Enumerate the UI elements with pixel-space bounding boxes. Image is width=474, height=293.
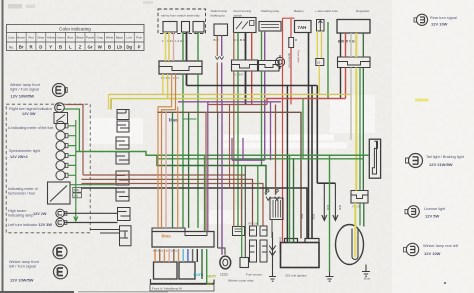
svg-text:+ Automatic fuse: + Automatic fuse xyxy=(315,9,338,13)
svg-text:Regulator: Regulator xyxy=(356,9,369,13)
svg-text:Winker lamp front: Winker lamp front xyxy=(9,260,40,264)
svg-text:12V 5W: 12V 5W xyxy=(425,214,439,219)
brown drop center xyxy=(205,112,207,231)
wire green starting relay xyxy=(261,31,263,166)
faint scan mark top-left 1 xyxy=(8,4,22,9)
svg-text:12V 10W: 12V 10W xyxy=(431,22,448,27)
label winker lamp rear left xyxy=(423,244,459,256)
olive drop to connector column xyxy=(110,99,112,110)
color indicating table xyxy=(7,25,145,51)
winker relay box upper xyxy=(233,227,245,236)
regulator connector block xyxy=(338,57,371,68)
red bus right xyxy=(267,99,346,105)
ignition coil symbol xyxy=(275,55,284,69)
svg-text:switch: switch xyxy=(234,14,243,18)
wire black regulator xyxy=(340,33,342,99)
wire green regulator 2 xyxy=(362,33,365,227)
horn switch box xyxy=(182,22,190,33)
svg-text:Z: Z xyxy=(79,44,82,49)
scan bottom edge faint xyxy=(78,291,168,293)
svg-text:Fuel sensor: Fuel sensor xyxy=(246,273,262,277)
wire maroon relay box feed 2 xyxy=(241,175,243,227)
black low bus xyxy=(82,188,308,239)
wire yellow fuse pair 2 xyxy=(321,31,323,59)
wire black handlebar thick xyxy=(186,32,188,86)
speedometer bulb 4 xyxy=(56,151,68,160)
svg-text:R/D: R/D xyxy=(338,205,342,210)
svg-text:Battery: Battery xyxy=(294,9,304,13)
svg-text:Gr: Gr xyxy=(87,44,92,49)
svg-text:B: B xyxy=(59,44,62,49)
wire green CDI 2 xyxy=(293,159,295,243)
svg-text:Br G B R: Br G B R xyxy=(233,38,246,42)
fuse lower box xyxy=(316,59,324,66)
comb connector pair 4 xyxy=(118,208,132,246)
svg-text:Deep: Deep xyxy=(37,36,44,40)
main harness connector block xyxy=(152,228,214,247)
fuel sensor connector right xyxy=(260,226,267,262)
wire red through fuse tube xyxy=(290,19,292,105)
main connector drop 2 brown xyxy=(159,249,161,262)
svg-text:bw: bw xyxy=(207,281,214,286)
magneto ellipse xyxy=(336,225,364,265)
handlebar switch assembly dashed box xyxy=(158,9,206,34)
wire yellow below fuse box xyxy=(318,66,320,95)
wire dark fuel box xyxy=(244,166,246,258)
right turn indicator lamp xyxy=(55,103,65,113)
wire white regulator xyxy=(350,33,352,140)
svg-text:Purple: Purple xyxy=(86,36,95,40)
wire maroon right-turn stub xyxy=(66,105,84,176)
faint scan mark top edge xyxy=(143,1,153,4)
speedometer bulb 3 xyxy=(56,141,68,150)
svg-text:B: B xyxy=(108,44,111,49)
svg-text:Winker lamp rear left: Winker lamp rear left xyxy=(423,244,459,248)
svg-text:Speedometer light: Speedometer light xyxy=(9,149,41,153)
dimmer switch box xyxy=(163,22,177,33)
diode symbol xyxy=(269,232,275,262)
black comb feed wire xyxy=(90,229,120,231)
starting relay connector block xyxy=(259,61,280,72)
svg-text:12V 10W/5W: 12V 10W/5W xyxy=(10,278,34,283)
fuel meter box xyxy=(54,113,68,124)
svg-text:Starting relay: Starting relay xyxy=(261,9,280,13)
table color-name row xyxy=(8,36,143,40)
speedometer bulb 2 xyxy=(56,131,68,140)
green stub lites xyxy=(183,118,196,120)
svg-text:Lt.bl: Lt.bl xyxy=(126,36,132,40)
label rear turn signal xyxy=(430,16,457,27)
brake switch label xyxy=(211,9,228,18)
wire brown brake switch xyxy=(216,36,218,113)
dark green drop left xyxy=(172,112,174,228)
scan white streak 5 xyxy=(330,95,375,133)
left turn indicator lamp xyxy=(56,218,67,226)
ground green wire mid xyxy=(326,271,334,281)
svg-text:Front turning: Front turning xyxy=(234,9,252,13)
green main bus long xyxy=(76,152,370,156)
purple cross link xyxy=(232,138,265,160)
speedometer bulb 6 xyxy=(56,171,68,180)
flasher striped box xyxy=(270,198,283,220)
resistor fuse tube box xyxy=(289,38,294,48)
scan white streak 3 xyxy=(88,118,143,144)
svg-text:12V 3W: 12V 3W xyxy=(22,112,36,116)
label tachometer meter xyxy=(8,187,38,196)
tail light lamp symbol xyxy=(406,154,423,168)
wire yellow fuse pair 1 xyxy=(316,31,318,59)
svg-text:Yellow: Yellow xyxy=(47,36,56,40)
svg-text:Pink: Pink xyxy=(136,36,142,40)
wire yellow regulator to magneto xyxy=(355,33,356,226)
wire green drop right xyxy=(302,99,304,159)
orange drop 3 xyxy=(177,107,179,228)
orange drop 1 xyxy=(158,74,172,228)
svg-text:Gray: Gray xyxy=(97,36,104,40)
maroon bus lower xyxy=(157,112,301,238)
wire green regulator 1 xyxy=(359,68,361,226)
wire green CDI 1 xyxy=(289,155,291,242)
headlight label box xyxy=(150,285,214,292)
winker front left lamp symbol upper xyxy=(53,245,67,259)
table column lines xyxy=(16,32,134,50)
speedometer bulb 5 xyxy=(56,161,68,170)
green bus second xyxy=(157,155,266,195)
headlight box left xyxy=(154,262,178,279)
green drop into connector xyxy=(204,155,206,231)
wire green long ground xyxy=(329,155,331,271)
main connector drop 10 black xyxy=(196,249,198,262)
wire red turning switch xyxy=(251,33,253,105)
svg-text:Color: Color xyxy=(8,36,15,40)
fuel sensor connector left xyxy=(250,226,257,262)
main connector drop 7 lightblue xyxy=(182,249,184,262)
fuel sensor small box xyxy=(240,258,249,268)
dangling wire RD with arrow xyxy=(333,183,338,220)
purple drop right xyxy=(275,105,277,196)
wire red regulator xyxy=(345,33,347,99)
wire dark relay box feed 1 xyxy=(229,105,231,189)
svg-text:L: L xyxy=(69,44,72,49)
green bulb rail xyxy=(68,120,116,221)
svg-text:Black: Black xyxy=(116,36,124,40)
main connector drop 1 orange xyxy=(154,249,156,262)
main connector drop 9 gray xyxy=(192,249,194,262)
scan left edge xyxy=(2,0,4,293)
wire yellow handlebar 1 xyxy=(163,32,166,94)
wire black turning switch xyxy=(245,33,247,105)
label license light xyxy=(424,207,446,219)
svg-text:CDI unit ignition: CDI unit ignition xyxy=(285,274,307,278)
spark plug connector block xyxy=(351,191,368,204)
svg-text:B R: B R xyxy=(214,38,220,42)
wire green handlebar 2 xyxy=(197,32,199,228)
wire green handlebar 1 xyxy=(182,32,184,228)
label right turn signal indicator xyxy=(9,107,53,116)
svg-text:left / Turn signal: left / Turn signal xyxy=(9,265,36,269)
svg-text:Blue: Blue xyxy=(364,277,370,281)
wire green right-turn indicator stub xyxy=(64,109,79,152)
maroon bus upper xyxy=(208,104,267,106)
license light lamp symbol xyxy=(405,206,419,218)
svg-text:Front lt / Headlamp W: Front lt / Headlamp W xyxy=(152,287,182,291)
main connector drop 5 brown xyxy=(173,249,175,262)
comb connector pair 1 xyxy=(117,110,129,133)
svg-text:Winker lamp front: Winker lamp front xyxy=(10,83,41,87)
maroon left horizontal 2 xyxy=(82,179,253,226)
wire purple brake switch xyxy=(221,36,223,102)
scan white streak 2 xyxy=(222,143,347,149)
yellow highlight dash right margin xyxy=(415,99,429,102)
svg-text:12V 10W: 12V 10W xyxy=(424,251,441,256)
svg-text:Dg: Dg xyxy=(126,44,132,49)
purple drop center xyxy=(270,102,272,160)
purple bus xyxy=(178,101,281,103)
svg-text:SZ: SZ xyxy=(317,61,321,65)
main connector drop 4 pink xyxy=(168,249,170,262)
svg-text:P: P xyxy=(138,44,141,49)
green bus pair lower xyxy=(157,158,363,160)
high beam indicator lamp xyxy=(56,209,67,217)
svg-text:12V 10W/5W: 12V 10W/5W xyxy=(11,94,35,99)
brake wire break chevron 1 xyxy=(215,57,219,60)
regulator box xyxy=(337,20,370,34)
svg-text:right / Turn signal: right / Turn signal xyxy=(10,88,39,92)
right margin lighter band xyxy=(392,0,474,293)
comb connector pair 3 xyxy=(116,171,129,201)
main connector drop 3 orange xyxy=(163,249,165,262)
dangling wire RN with arrow xyxy=(322,183,327,220)
meter pin boxes xyxy=(73,187,82,197)
brake wire break chevron 2 xyxy=(220,57,224,60)
olive bus xyxy=(111,98,267,100)
winker switch box xyxy=(193,22,204,33)
svg-text:horn: horn xyxy=(206,274,216,279)
wire yellow handlebar 2 xyxy=(168,32,169,99)
svg-text:braking rly: braking rly xyxy=(211,14,226,18)
winker rear left lamp symbol xyxy=(404,243,419,255)
svg-text:No.: No. xyxy=(9,45,14,49)
svg-text:B Y BW L G GY: B Y BW L G GY xyxy=(161,76,180,80)
svg-text:indicating lamp: indicating lamp xyxy=(8,214,33,218)
svg-text:12V 2W×1: 12V 2W×1 xyxy=(10,155,28,159)
black bus upper xyxy=(187,86,318,243)
scan white streak 4 xyxy=(200,210,245,224)
svg-text:12V 2W: 12V 2W xyxy=(33,212,47,216)
svg-text:safety horn switch assembly: safety horn switch assembly xyxy=(161,14,200,18)
magneto yellow core xyxy=(354,226,356,257)
svg-text:Br: Br xyxy=(19,44,24,49)
svg-text:tachometer / fuel: tachometer / fuel xyxy=(8,192,35,196)
dark winker relay wire xyxy=(218,112,225,255)
ground under CDI xyxy=(269,262,276,281)
main connector drop 6 tan xyxy=(178,249,180,262)
automatic fuse body xyxy=(317,20,325,32)
flasher break chevrons xyxy=(266,197,279,201)
svg-text:Y: Y xyxy=(49,44,52,49)
wire purple starting relay xyxy=(264,31,266,160)
winker front right lamp symbol xyxy=(52,83,67,96)
CDI unit box xyxy=(281,239,320,268)
purple winker relay wire xyxy=(221,102,223,255)
svg-text:A indicating meter of the fuel: A indicating meter of the fuel xyxy=(8,126,54,130)
svg-text:Right turn signal indicator: Right turn signal indicator xyxy=(9,107,53,111)
main connector drop 12 green xyxy=(206,249,208,283)
instrument cluster dashed box xyxy=(6,104,90,233)
pink drop center xyxy=(165,112,167,228)
yellow drop to connector column xyxy=(108,94,110,109)
wire black vertical right xyxy=(317,86,335,184)
svg-text:Switch lamp: Switch lamp xyxy=(211,9,228,13)
wire black battery negative xyxy=(309,33,313,239)
headlight bottom bus xyxy=(151,279,215,284)
label winker lamp front right xyxy=(10,83,41,99)
rear turn signal lamp symbol xyxy=(414,14,428,25)
main connector drop 11 darkgreen xyxy=(201,249,203,279)
starting relay box xyxy=(259,22,281,32)
svg-text:Tail light / Braking light: Tail light / Braking light xyxy=(426,155,465,159)
main connector drop 8 blue xyxy=(187,249,189,262)
wire green turning switch xyxy=(237,33,239,227)
turning switch label xyxy=(234,9,252,18)
svg-text:Brown: Brown xyxy=(17,36,26,40)
svg-text:Black: Black xyxy=(77,36,85,40)
svg-text:7AH: 7AH xyxy=(298,25,307,30)
scan bottom edge xyxy=(0,291,74,293)
svg-text:Lb: Lb xyxy=(117,44,123,49)
black high beam wire xyxy=(64,212,117,214)
brake switch box xyxy=(214,24,228,36)
svg-text:License light: License light xyxy=(424,207,446,211)
comb connector pair 2 xyxy=(116,137,129,164)
table code row xyxy=(9,44,141,49)
svg-text:Rear turn signal: Rear turn signal xyxy=(430,16,457,20)
dark green drop center xyxy=(188,112,190,228)
label tail light xyxy=(426,155,465,167)
wire green fuel box xyxy=(241,166,243,258)
period mark bottom right xyxy=(444,282,446,284)
svg-text:Green: Green xyxy=(56,36,64,40)
svg-text:Indicating meter of: Indicating meter of xyxy=(8,187,38,191)
svg-text:D: D xyxy=(39,44,42,49)
orange drop 2 xyxy=(162,74,176,228)
purple drop left-center xyxy=(207,102,209,232)
main switch key profile xyxy=(369,139,380,178)
svg-text:Color indicating: Color indicating xyxy=(59,27,91,32)
turning switch connector block xyxy=(232,60,258,71)
ground under magneto xyxy=(362,265,370,277)
wire pink handlebar xyxy=(173,32,175,61)
yellow bus xyxy=(109,93,351,95)
svg-text:Left turn indicator 12V 3W: Left turn indicator 12V 3W xyxy=(8,223,52,227)
wire brown turning switch xyxy=(233,33,235,227)
svg-text:Red: Red xyxy=(28,36,34,40)
svg-text:Fuse tube: Fuse tube xyxy=(297,50,301,63)
wire green from fuse xyxy=(327,22,329,99)
winker relay circle xyxy=(220,256,231,269)
maroon left horizontal 1 xyxy=(83,174,246,176)
winker front left lamp symbol lower xyxy=(54,265,68,279)
black left turn wire xyxy=(64,222,117,224)
svg-text:11111: 11111 xyxy=(220,273,228,277)
wire green fuel sensor 1 xyxy=(257,166,259,227)
black comb feed wire 2 xyxy=(100,232,120,234)
battery box xyxy=(295,21,312,33)
wire diode link xyxy=(271,220,273,239)
svg-text:blea: blea xyxy=(162,234,172,239)
label high beam indicating lamp xyxy=(8,209,47,218)
speedometer bulb 1 xyxy=(56,121,68,130)
wire red battery top xyxy=(283,18,295,242)
svg-text:12V 21W/5W: 12V 21W/5W xyxy=(429,162,453,167)
svg-text:Blue: Blue xyxy=(67,36,73,40)
svg-text:White: White xyxy=(106,36,114,40)
svg-text:BW: BW xyxy=(74,188,79,192)
turning switch box xyxy=(234,18,257,33)
scan white streak 1 xyxy=(222,135,334,141)
headlight box right xyxy=(179,262,195,279)
label speedometer light xyxy=(9,149,41,159)
label winker lamp front left xyxy=(9,260,40,283)
tachometer meter box with needle xyxy=(48,182,71,204)
svg-text:High beam: High beam xyxy=(8,209,26,213)
svg-text:Winker comp relay: Winker comp relay xyxy=(228,279,254,283)
connector block headlight switch xyxy=(159,61,202,74)
faint scan mark top-left 2 xyxy=(26,5,35,9)
maroon left horizontal 3 xyxy=(82,184,264,227)
